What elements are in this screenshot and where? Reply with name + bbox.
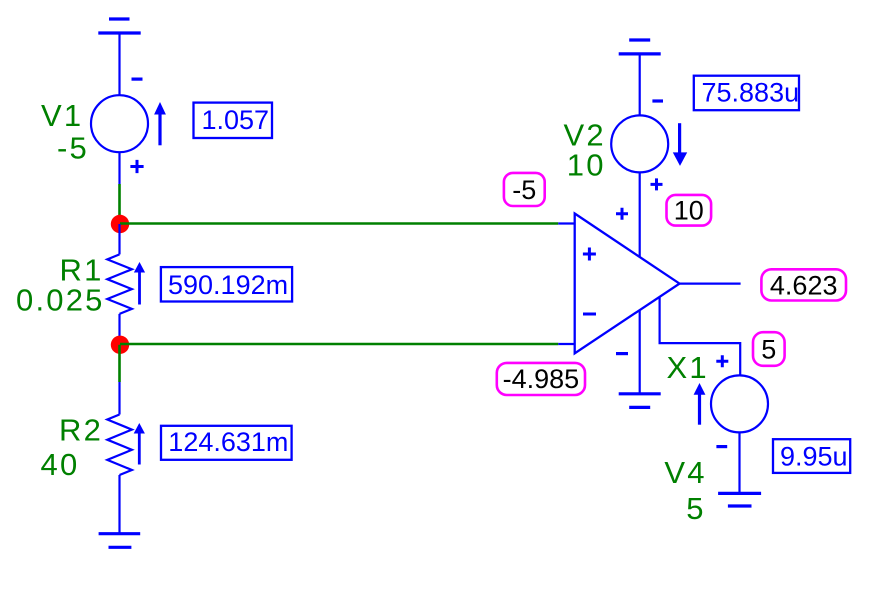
svg-text:-4.985: -4.985 xyxy=(503,364,580,394)
svg-text:4.623: 4.623 xyxy=(770,270,838,300)
ground (below R2) xyxy=(99,534,141,548)
svg-text:-5: -5 xyxy=(512,175,536,205)
op-amp X1 xyxy=(558,208,679,355)
ground (top, above V2) xyxy=(619,40,661,54)
wire V4 to ground xyxy=(738,432,740,493)
wire node B to R2 (green) xyxy=(118,345,121,382)
wire V2 to op-amp positive supply xyxy=(639,172,641,256)
R1 current arrow xyxy=(134,262,145,305)
node voltage label 5 xyxy=(753,332,785,366)
svg-text:75.883u: 75.883u xyxy=(702,78,800,108)
ground (op-amp negative supply) xyxy=(619,394,661,408)
wire V1 to node A (green) xyxy=(118,184,121,224)
svg-text:10: 10 xyxy=(674,196,704,226)
R2 current arrow xyxy=(134,423,145,465)
V4 current arrow xyxy=(694,383,706,425)
node voltage label 4.623 xyxy=(761,269,846,300)
node voltage label 10 xyxy=(667,195,712,226)
wire V1 to node A (blue lead) xyxy=(118,152,120,184)
svg-text:9.95u: 9.95u xyxy=(780,442,848,472)
current readout box 75.883u xyxy=(694,76,799,111)
current readout box 124.631m xyxy=(161,426,292,460)
wire ground to V1 xyxy=(118,33,120,96)
node A junction dot xyxy=(111,215,129,233)
node B junction dot xyxy=(111,336,129,354)
svg-text:X1: X1 xyxy=(667,350,709,385)
node voltage label -5 xyxy=(504,173,545,206)
wire ground to V2 xyxy=(639,54,641,116)
wire node A to op-amp noninverting input xyxy=(120,222,558,225)
ground (below V4) xyxy=(718,493,761,506)
svg-text:R2: R2 xyxy=(59,413,103,448)
svg-text:5: 5 xyxy=(761,334,776,364)
svg-text:V4: V4 xyxy=(664,455,706,490)
svg-text:124.631m: 124.631m xyxy=(168,427,288,457)
svg-text:40: 40 xyxy=(41,447,80,482)
current readout box 1.057 xyxy=(194,103,273,138)
resistor R1 xyxy=(107,224,132,345)
wire node B to op-amp inverting input xyxy=(120,343,558,346)
svg-text:V1: V1 xyxy=(41,98,83,133)
ground (top, above V1) xyxy=(98,19,140,33)
svg-text:5: 5 xyxy=(686,491,705,526)
svg-text:1.057: 1.057 xyxy=(202,105,270,135)
svg-text:0.025: 0.025 xyxy=(16,282,105,317)
current readout box 590.192m xyxy=(161,267,292,301)
current readout box 9.95u xyxy=(773,439,850,473)
wire op-amp negative supply to ground xyxy=(639,310,641,394)
V2 current arrow xyxy=(673,123,687,166)
svg-text:-5: -5 xyxy=(57,130,89,165)
voltage source V4 xyxy=(711,375,768,448)
voltage source V1 xyxy=(91,78,148,174)
output wire xyxy=(680,283,741,285)
X1 plus pin mark xyxy=(716,355,728,367)
resistor R2 xyxy=(107,382,132,534)
V1 current arrow xyxy=(154,102,166,145)
svg-text:590.192m: 590.192m xyxy=(168,270,288,300)
wire op-amp output branch to V4 xyxy=(660,297,741,376)
svg-text:10: 10 xyxy=(567,148,606,183)
voltage source V2 xyxy=(611,99,668,190)
node voltage label -4.985 xyxy=(497,363,585,395)
